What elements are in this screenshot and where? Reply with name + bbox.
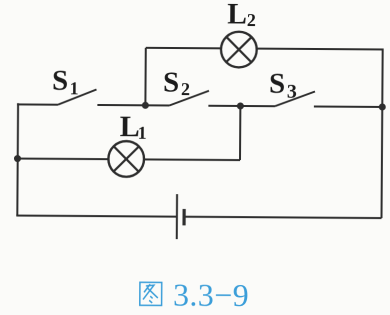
wire: bottom row left of battery: [16, 216, 177, 217]
wire: top branch (L2 branch) horizontal: [146, 48, 383, 50]
wire: left vertical side: [16, 103, 19, 215]
switch S1 lever: [58, 89, 97, 105]
wire: vertical drop from top branch to node A: [144, 48, 146, 105]
wire: switch S2 right contact through node B to S3: [208, 105, 274, 107]
wire: vertical from node B down to L1 branch: [239, 106, 241, 160]
wire: middle row, left edge to switch S1: [17, 103, 58, 105]
node A junction dot: [142, 102, 149, 109]
wire: right vertical side: [382, 48, 383, 218]
wire: switch S3 right contact to right side node C: [314, 105, 382, 107]
switch S2 lever: [169, 90, 209, 105]
svg-text:L2: L2: [227, 0, 256, 31]
lamp L1: [108, 141, 144, 177]
switch S3 lever: [275, 91, 315, 106]
wire: L1 branch horizontal: [17, 159, 240, 161]
wire: switch S1 right contact to node A and on to S2: [97, 104, 169, 107]
battery: [177, 194, 185, 239]
caption: figure number 图 3.3-9: [140, 276, 249, 313]
svg-text:L1: L1: [120, 110, 147, 143]
svg-text:S2: S2: [163, 66, 190, 99]
wire: bottom row right of battery: [185, 217, 382, 218]
svg-text:3.3−9: 3.3−9: [173, 277, 249, 314]
node B junction dot: [237, 102, 244, 109]
svg-text:S3: S3: [269, 67, 297, 102]
node C junction dot: [379, 103, 386, 110]
node D junction dot: [14, 155, 21, 162]
svg-text:S1: S1: [52, 65, 79, 98]
lamp L2: [221, 32, 257, 68]
